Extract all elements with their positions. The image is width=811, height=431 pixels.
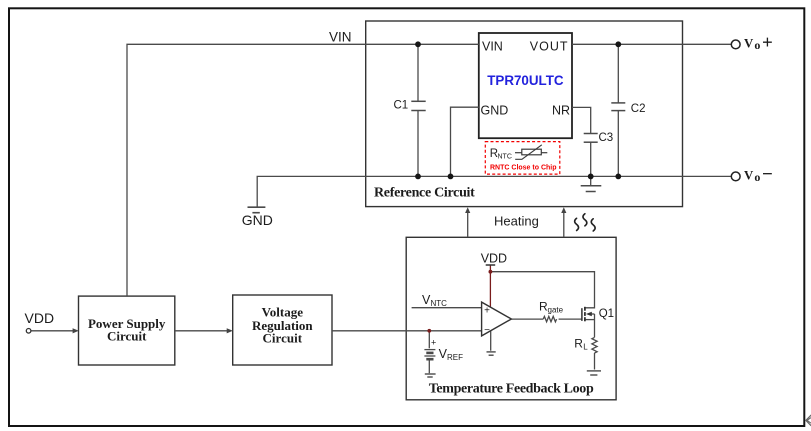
svg-text:Circuit: Circuit	[263, 331, 303, 346]
svg-text:Heating: Heating	[494, 214, 539, 229]
svg-text:V: V	[744, 169, 754, 183]
svg-text:Q1: Q1	[599, 308, 614, 320]
svg-text:VDD: VDD	[481, 251, 507, 265]
svg-text:Reference Circuit: Reference Circuit	[374, 186, 475, 201]
svg-text:TPR70ULTC: TPR70ULTC	[487, 73, 564, 88]
svg-text:R: R	[574, 336, 583, 350]
svg-text:o: o	[754, 170, 760, 184]
svg-text:REF: REF	[447, 353, 463, 362]
svg-text:C3: C3	[599, 132, 614, 144]
svg-text:−: −	[484, 325, 490, 336]
svg-text:V: V	[744, 37, 754, 51]
svg-text:+: +	[484, 305, 490, 316]
svg-text:o: o	[754, 38, 760, 52]
svg-text:Circuit: Circuit	[107, 328, 147, 343]
svg-text:+: +	[431, 338, 436, 348]
svg-text:VOUT: VOUT	[530, 39, 569, 53]
svg-text:GND: GND	[242, 212, 273, 228]
svg-text:−: −	[762, 164, 773, 185]
svg-text:C2: C2	[631, 103, 646, 115]
svg-text:L: L	[583, 342, 588, 351]
svg-text:NR: NR	[552, 103, 570, 117]
svg-text:VIN: VIN	[329, 30, 352, 45]
svg-text:+: +	[762, 33, 773, 54]
svg-text:NTC: NTC	[431, 299, 448, 308]
svg-text:RNTC Close to Chip: RNTC Close to Chip	[490, 165, 557, 172]
svg-text:GND: GND	[481, 103, 509, 117]
svg-text:C1: C1	[394, 100, 409, 112]
svg-text:NTC: NTC	[498, 154, 512, 161]
svg-text:Temperature Feedback Loop: Temperature Feedback Loop	[429, 381, 594, 396]
svg-text:VDD: VDD	[25, 310, 55, 326]
svg-text:VIN: VIN	[482, 39, 503, 53]
svg-text:gate: gate	[548, 306, 564, 315]
